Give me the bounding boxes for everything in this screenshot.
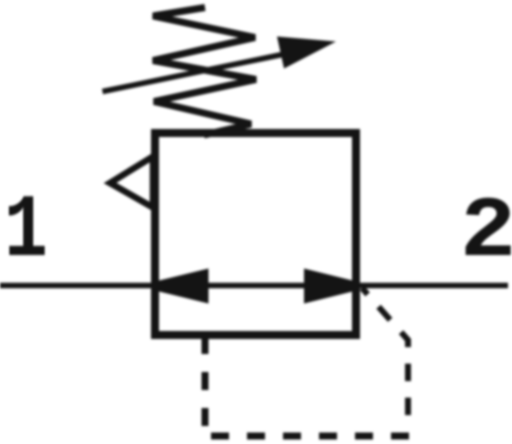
adjustment arrow shaft <box>103 53 293 92</box>
relief vent triangle <box>110 157 153 208</box>
port label 2 <box>460 184 512 281</box>
pilot line dashed left vertical to box bottom <box>202 336 209 436</box>
spring (adjustable) <box>153 8 256 136</box>
pilot line dashed bottom horizontal <box>209 433 409 440</box>
port label 1 <box>4 181 48 282</box>
flow arrowhead right <box>304 269 357 304</box>
pilot line dashed diagonal and right vertical <box>362 288 408 424</box>
wire main flow line port1 to port2 <box>0 283 508 289</box>
adjustment arrowhead <box>277 37 336 69</box>
flow arrowhead left <box>155 269 209 304</box>
valve body box <box>155 133 356 335</box>
